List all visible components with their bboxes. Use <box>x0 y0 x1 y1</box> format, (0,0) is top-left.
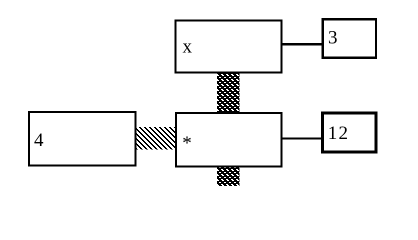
svg-text:x: x <box>183 36 193 57</box>
svg-text:12: 12 <box>328 123 349 144</box>
shaded edge: node-x to node-mul (vertical bar) <box>217 72 239 114</box>
svg-text:3: 3 <box>328 28 338 49</box>
box node 12 <box>323 113 376 152</box>
shaded edge: below node-mul (result, vertical bar) <box>217 166 239 186</box>
svg-text:*: * <box>182 133 192 154</box>
wire node-x to node-3 <box>281 43 323 45</box>
wire node-mul to node-12 <box>281 138 322 140</box>
box node 3 <box>323 19 376 57</box>
box node mul <box>176 113 282 166</box>
svg-text:4: 4 <box>34 130 44 151</box>
shaded edge: node-4 to node-mul (horizontal band) <box>135 127 177 150</box>
box node x <box>176 20 282 72</box>
box node 4 <box>29 112 135 165</box>
